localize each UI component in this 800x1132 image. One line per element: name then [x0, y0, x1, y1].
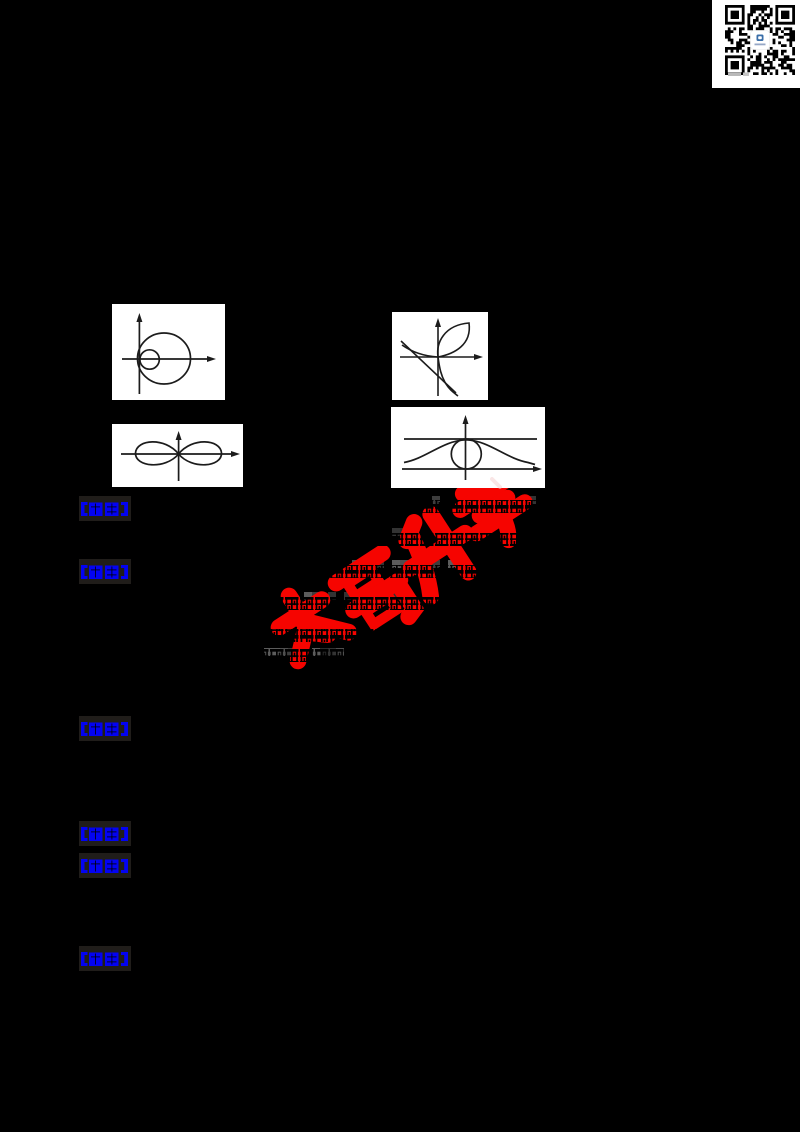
jpeg gray mottling: [264, 496, 536, 656]
bell curve: [404, 440, 535, 465]
blue tag 2: [79, 559, 131, 584]
y axis: [437, 323, 439, 396]
graph C (lemniscate): [112, 424, 243, 487]
char 2: [336, 553, 419, 640]
char 4 (top-right): [452, 466, 538, 554]
lemniscate: [135, 442, 221, 465]
tiny gray caption under QR: [728, 73, 741, 77]
blue tag 1: [79, 496, 131, 521]
x axis: [122, 358, 211, 360]
QR code white box: [712, 0, 800, 88]
graph A (limacon): [112, 304, 225, 400]
graph D (witch of Agnesi): [391, 407, 545, 488]
char 3: [391, 502, 484, 597]
leaf: [438, 323, 470, 357]
arrow heads: [136, 313, 142, 322]
x axis: [400, 356, 478, 358]
y axis: [178, 436, 180, 481]
inner loop: [140, 350, 159, 369]
y axis: [138, 318, 140, 394]
x axis: [402, 468, 537, 470]
QR centre logo: [751, 31, 770, 50]
y axis: [465, 420, 467, 480]
red watermark: [266, 466, 538, 664]
graph B (folium): [392, 312, 488, 400]
asymptote: [401, 341, 456, 393]
top line: [404, 438, 537, 440]
circle: [451, 439, 481, 469]
outer loop: [138, 333, 191, 384]
blue tag 3: [79, 716, 131, 741]
x axis: [121, 453, 235, 455]
blue tag 4: [79, 821, 131, 846]
branch: [402, 345, 458, 396]
black body text rows: [132, 500, 740, 513]
blue tag 6: [79, 946, 131, 971]
char 1 (bottom-left): [266, 580, 349, 664]
blue tag 5: [79, 853, 131, 878]
